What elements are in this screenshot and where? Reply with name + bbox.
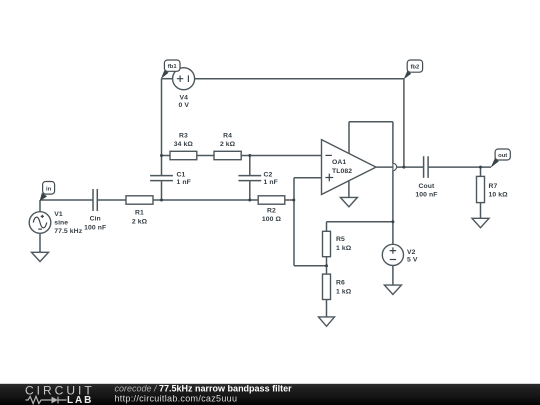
wire feedback up from minus input (348, 122, 350, 155)
svg-text:5 V: 5 V (407, 257, 418, 264)
node fb1 flag (161, 60, 180, 79)
svg-text:out: out (498, 153, 507, 159)
wire V2 top (392, 222, 394, 245)
wire to R5 R6 node (294, 265, 327, 267)
wire Cin to R2 rail (97, 199, 294, 201)
svg-text:R1: R1 (135, 210, 144, 217)
resistor R5 (323, 231, 352, 256)
svg-text:2 kΩ: 2 kΩ (220, 141, 236, 148)
wire V4 left vertical (161, 79, 163, 156)
wire feedback top (349, 121, 393, 123)
svg-text:C1: C1 (177, 171, 186, 178)
svg-text:C2: C2 (264, 171, 273, 178)
capacitor Cout (415, 156, 437, 199)
svg-text:V4: V4 (180, 94, 189, 101)
ground (below V1) (32, 252, 49, 261)
junction C2 top (248, 154, 251, 157)
svg-text:1 kΩ: 1 kΩ (336, 289, 352, 296)
svg-text:OA1: OA1 (332, 159, 346, 166)
ground (below V2) (384, 285, 401, 294)
wire C2 stems (249, 156, 251, 201)
junction R5 R6 node (325, 264, 328, 267)
wire R6 bottom (326, 300, 328, 317)
resistor R3 (170, 132, 197, 159)
wire R5 top (327, 222, 393, 232)
svg-text:sine: sine (54, 219, 68, 226)
wire fb2 vertical down to output (403, 79, 405, 167)
voltage source V2 (382, 244, 403, 265)
svg-text:in: in (46, 186, 52, 192)
svg-text:R6: R6 (336, 280, 345, 287)
capacitor Cin (84, 189, 106, 231)
junction feedback V2 node (391, 220, 394, 223)
wire C1 stems (161, 156, 163, 201)
logo CIRCUIT (25, 384, 95, 398)
label V2 value (407, 249, 418, 264)
svg-text:http://circuitlab.com/caz5uuu: http://circuitlab.com/caz5uuu (115, 394, 238, 404)
ground (below R7) (472, 218, 489, 227)
junction C1 bottom rail (160, 199, 163, 202)
wire main rail left (in node to Cin) (40, 199, 93, 201)
wire R7 stems (480, 167, 482, 218)
resistor R4 (214, 132, 241, 159)
wire feedback right vertical (392, 122, 394, 222)
junction output node (402, 166, 405, 169)
logo LAB (67, 395, 93, 405)
svg-text:R3: R3 (179, 132, 188, 139)
wire plus input (294, 178, 322, 266)
resistor R1 (126, 196, 153, 226)
svg-text:0 V: 0 V (179, 102, 190, 109)
wire V1 stems (39, 200, 41, 252)
capacitor C2 (238, 171, 277, 186)
svg-text:Cin: Cin (90, 216, 101, 223)
svg-text:TL082: TL082 (332, 168, 352, 175)
wire hop (output over feedback) (393, 163, 397, 171)
ground (below R6) (319, 317, 335, 326)
svg-text:fb2: fb2 (410, 64, 420, 70)
junction R7 output node (479, 166, 482, 169)
footer title text (115, 383, 293, 393)
wire V4 right lead to fb2 (195, 78, 404, 80)
footer url text (115, 394, 238, 404)
wire R5 bottom (326, 257, 328, 274)
svg-text:2 kΩ: 2 kΩ (132, 219, 148, 226)
svg-text:100 nF: 100 nF (84, 224, 106, 231)
wire opamp ground stem (348, 180, 350, 197)
node out flag (491, 149, 511, 168)
junction C2 bottom rail (248, 199, 251, 202)
wire output right (428, 166, 491, 168)
svg-text:V2: V2 (407, 249, 416, 256)
node in flag (40, 182, 55, 202)
resistor R2 (258, 196, 285, 223)
svg-text:R4: R4 (223, 132, 232, 139)
ground (op-amp) (340, 197, 357, 206)
logo resistor diode glyphs (26, 396, 67, 403)
svg-text:R5: R5 (336, 236, 345, 243)
svg-text:fb1: fb1 (168, 64, 178, 70)
wire V2 bottom (392, 266, 394, 286)
capacitor C1 (150, 171, 191, 186)
label V1 value (54, 211, 83, 235)
voltage source V4 (0V ammeter) (173, 68, 195, 90)
wire op-amp output (376, 166, 424, 168)
svg-text:1 kΩ: 1 kΩ (336, 245, 352, 252)
junction C1 top (160, 154, 163, 157)
voltage source V1 (sine) (29, 212, 51, 234)
svg-text:100 Ω: 100 Ω (262, 216, 282, 223)
svg-text:100 nF: 100 nF (415, 192, 437, 199)
svg-text:LAB: LAB (67, 395, 93, 405)
svg-text:77.5 kHz: 77.5 kHz (54, 228, 83, 235)
svg-text:R2: R2 (267, 207, 276, 214)
svg-text:corecode / 77.5kHz narrow band: corecode / 77.5kHz narrow bandpass filte… (115, 383, 293, 393)
svg-text:10 kΩ: 10 kΩ (489, 192, 509, 199)
svg-text:V1: V1 (54, 211, 63, 218)
resistor R6 (323, 274, 352, 299)
svg-text:1 nF: 1 nF (177, 179, 191, 186)
footer bar (0, 384, 540, 405)
resistor R7 (477, 176, 509, 202)
wire R3 row (162, 155, 322, 157)
node fb2 flag (404, 60, 423, 79)
wire V4 left lead (162, 78, 173, 80)
svg-text:1 nF: 1 nF (264, 179, 278, 186)
op-amp OA1 TL082 (322, 140, 377, 195)
junction plus input node (292, 199, 295, 202)
svg-text:R7: R7 (489, 183, 498, 190)
svg-text:Cout: Cout (419, 183, 436, 190)
svg-text:34 kΩ: 34 kΩ (174, 141, 194, 148)
label V4 value (179, 94, 190, 109)
